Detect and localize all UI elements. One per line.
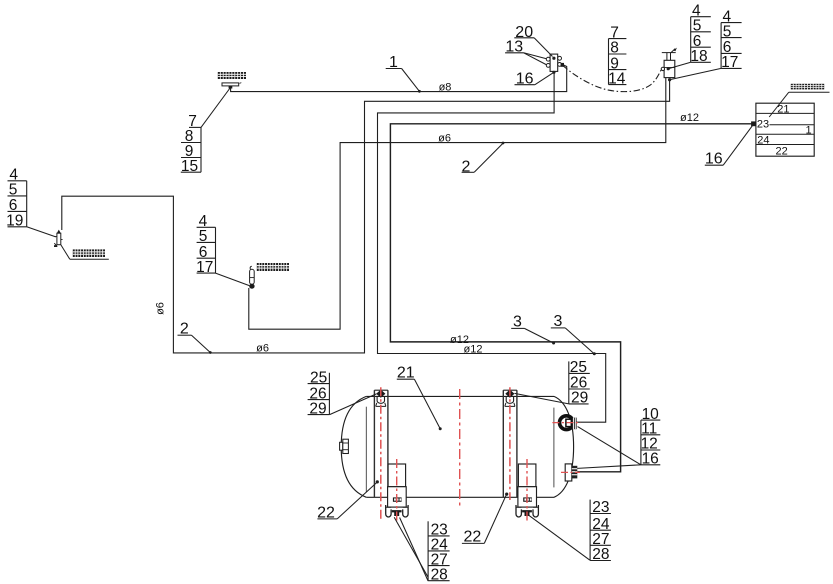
callout stack 7/8/9/14 (hose parts) <box>608 24 626 87</box>
callout 22 (right strap) <box>462 493 508 546</box>
leader from stack 4/5/6/19 to air horn valve <box>27 227 56 237</box>
tank top-right fitting (callout 10/11/12/16) <box>560 416 577 430</box>
tank mounting strap left <box>374 390 388 497</box>
svg-text:ø6: ø6 <box>438 132 451 144</box>
callout stack 25/26/29 left (strap bolt) <box>308 369 330 417</box>
leader from left 25/26/29 stack to left strap bolt <box>330 394 377 415</box>
callout 20 <box>514 24 552 57</box>
bracket bolt centerline red right <box>526 459 528 521</box>
callout 3 (upper ø12 line) <box>511 314 555 345</box>
wire pipe ø8 from clutch cylinder to valve V1 <box>231 63 567 92</box>
leaders from bottom-middle stack to left bracket bolt <box>394 517 428 577</box>
callout 22 (left strap) <box>317 480 379 521</box>
leader from stack 4/5/6/18 to valve V2 <box>669 62 691 68</box>
svg-text:29: 29 <box>309 400 326 417</box>
wire pipe ø12 from valve V1 to tank top-right fitting <box>378 72 606 422</box>
svg-text:ø12: ø12 <box>464 344 483 356</box>
leader from stack 4/5/6/17 to valve V2 <box>670 68 721 79</box>
four-circuit protection valve box (四回路保护阀) <box>756 103 814 157</box>
exhaust brake butterfly valve 排气制动蝶阀 symbol <box>249 266 254 288</box>
valve U2 top-right with hand lever (callouts 4/5/6/18, 4/5/6/17) <box>661 48 677 82</box>
svg-text:17: 17 <box>196 259 213 276</box>
strap bolt right (callout 25/26/29) <box>505 390 515 407</box>
svg-text:23: 23 <box>757 119 769 131</box>
air horn solenoid valve 气喇叭电磁阀 symbol <box>54 230 63 247</box>
tank mounting bracket right (callouts 23/24/27/28) <box>516 464 538 517</box>
label 气喇叭电磁阀 with underline and tail <box>61 245 109 259</box>
svg-text:29: 29 <box>571 390 588 407</box>
air reservoir tank body outline <box>341 396 573 497</box>
callout stack 23/24/27/28 bottom-middle (left bracket) <box>428 521 450 583</box>
callout stack 4/5/6/17 (valve V2 lower port) <box>721 8 742 71</box>
svg-text:15: 15 <box>181 158 198 175</box>
tank centerline (red dash-dot) <box>459 389 461 506</box>
wire pipe air-horn loop to valve V2 lower port <box>62 80 670 353</box>
tank mounting bracket left (callouts 23/24/27/28) <box>386 464 408 517</box>
tank lower-right fitting (callout 10/11/12/16) <box>565 464 577 481</box>
callout 3 (lower ø12 line) <box>551 313 596 355</box>
callout stack 23/24/27/28 bottom-right (right bracket) <box>590 499 611 563</box>
callout stack 4/5/6/19 (air horn valve) <box>6 167 27 230</box>
leaders from 10/11/12/16 stack to the two right fittings <box>578 427 641 465</box>
svg-text:28: 28 <box>592 546 609 563</box>
valve U1 top-middle (callouts 20/13/16) <box>546 54 564 74</box>
callout 21 (tank) <box>397 364 442 430</box>
callout 16 (valve V1) <box>515 71 554 88</box>
svg-text:24: 24 <box>757 134 769 146</box>
svg-text:1: 1 <box>806 125 812 137</box>
callout 2 (ø6 line to butterfly valve) <box>462 142 505 176</box>
svg-text:ø8: ø8 <box>439 81 452 93</box>
svg-text:19: 19 <box>6 213 23 230</box>
callout stack 4/5/6/18 (valve V2 upper port) <box>690 2 710 65</box>
svg-text:ø6: ø6 <box>155 302 167 315</box>
svg-text:ø6: ø6 <box>256 343 269 355</box>
svg-text:16: 16 <box>642 451 659 468</box>
leader from stack 7/8/9/15 to clutch cylinder <box>201 89 230 128</box>
node: ø12 connection square on protection valve <box>751 121 756 126</box>
leader from bottom-right stack to right bracket bolt <box>528 515 590 560</box>
bracket bolt centerline red left <box>396 459 398 521</box>
svg-text:17: 17 <box>721 54 738 71</box>
svg-text:23: 23 <box>592 499 609 516</box>
tank mounting strap right <box>503 390 517 497</box>
svg-text:5: 5 <box>9 182 18 199</box>
leader from stack 4/5/6/17 to butterfly valve <box>216 273 250 286</box>
wire pipe ø12 from four-circuit protection valve to tank lower-right fitting <box>390 124 753 472</box>
callout 1 (ø8 line) <box>386 54 421 93</box>
leader from right 25/26/29 stack to right strap bolt <box>515 393 569 404</box>
fitting centerline red (horizontal) <box>561 471 580 473</box>
svg-text:8: 8 <box>610 40 619 57</box>
svg-text:ø12: ø12 <box>680 112 699 124</box>
strap centerline red left <box>380 387 382 521</box>
svg-text:22: 22 <box>775 145 787 157</box>
wire coiled hose between valve V1 and valve V2 (dash-dot curve) <box>563 65 662 91</box>
tank left end port fitting <box>340 439 349 453</box>
svg-text:14: 14 <box>608 70 626 87</box>
svg-text:5: 5 <box>199 228 208 245</box>
callout stack 4/5/6/17 (butterfly valve) <box>196 213 215 276</box>
fitting centerline red (horizontal) <box>552 422 580 424</box>
strap centerline red right <box>509 387 511 500</box>
callout stack 25/26/29 right (strap bolt) <box>569 359 590 407</box>
label 排气制动蝶阀 <box>257 263 289 271</box>
callout 2 (left loop ø6) <box>178 320 212 354</box>
svg-text:25: 25 <box>570 359 587 376</box>
strap bolt left (callout 25/26/29) <box>376 390 386 407</box>
clutch slave cylinder 离合器分泵 symbol <box>222 83 241 89</box>
callout stack 7/8/9/15 (clutch line) <box>181 113 201 175</box>
svg-text:18: 18 <box>690 48 707 65</box>
label 四回路保护阀 with leader into valve box <box>769 84 829 117</box>
svg-text:25: 25 <box>310 369 327 386</box>
callout stack 10/11/12/16 (right fittings) <box>641 406 661 468</box>
svg-text:5: 5 <box>723 23 732 40</box>
svg-text:28: 28 <box>431 566 448 583</box>
callout 16 (protection valve ø12 connection) <box>705 125 753 168</box>
wire pipe ø6 from valve V2 to exhaust brake butterfly valve <box>249 78 666 330</box>
label 离合器分泵 <box>218 72 246 79</box>
callout 13 <box>505 39 547 65</box>
